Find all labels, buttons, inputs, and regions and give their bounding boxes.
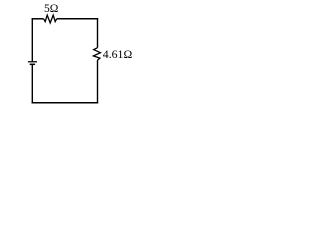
wire: top side left segment [32,18,44,20]
battery V1: long plate (positive) [28,61,37,62]
svg-text:5Ω: 5Ω [44,2,59,15]
battery V1: short thick plate (negative) [30,64,35,66]
svg-text:4.61Ω: 4.61Ω [103,47,133,61]
wire: bottom side [32,102,99,104]
wire: left side lower segment [31,65,33,104]
wire: right side upper segment [97,18,99,48]
resistor R2 (4.61 ohm) vertical zigzag [93,48,100,61]
wire: left side upper segment [31,18,33,61]
wire: right side lower segment [97,60,99,103]
resistor R1 (5 ohm) zigzag [44,15,57,23]
wire: top side right segment [57,18,98,20]
